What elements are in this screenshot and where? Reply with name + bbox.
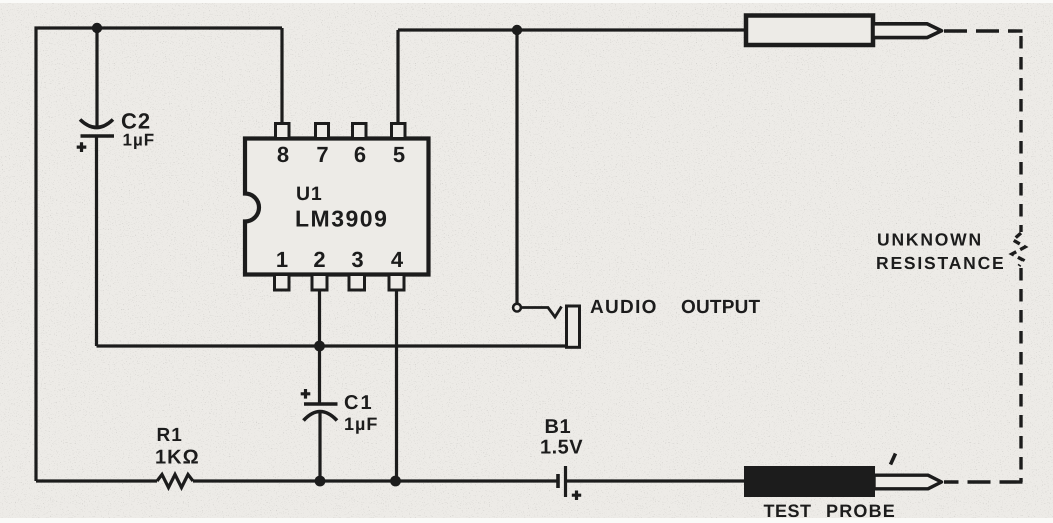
test probe tip xyxy=(874,475,942,489)
svg-text:RESISTANCE: RESISTANCE xyxy=(876,253,1006,273)
audio jack spring contact xyxy=(521,307,561,318)
C2 plus sign xyxy=(77,142,87,152)
banana plug (top) tip xyxy=(873,24,942,38)
pin 5 square xyxy=(392,124,406,139)
svg-text:U1: U1 xyxy=(296,183,323,205)
junction dot mid rail / pin2 xyxy=(314,341,325,352)
wire: C2 top lead xyxy=(95,28,98,127)
pin 4 square xyxy=(389,275,404,291)
svg-text:1: 1 xyxy=(276,247,288,272)
battery B1 negative plate xyxy=(556,474,560,488)
dashed lead: bottom right horizontal xyxy=(944,480,1023,483)
resistor R1 zigzag xyxy=(157,475,193,488)
svg-text:AUDIO: AUDIO xyxy=(590,297,658,318)
wire: pin 2 drop upper xyxy=(318,291,321,404)
wire: audio branch drop xyxy=(515,30,518,304)
pin 2 square xyxy=(312,275,327,291)
wire: C2 bottom lead down to mid rail xyxy=(95,136,98,346)
audio jack sleeve xyxy=(567,306,580,347)
junction dot bottom rail / C1 xyxy=(315,476,326,487)
svg-text:UNKNOWN: UNKNOWN xyxy=(877,230,983,250)
top white edge strip xyxy=(0,0,1053,3)
dashed lead: right vertical lower xyxy=(1019,268,1022,482)
dashed lead: top right horizontal xyxy=(944,29,1023,32)
svg-text:5: 5 xyxy=(393,142,405,167)
banana plug (top) body xyxy=(746,16,873,46)
svg-text:TEST: TEST xyxy=(764,501,812,521)
svg-text:3: 3 xyxy=(351,247,363,272)
capacitor C2 curved plate xyxy=(80,120,113,128)
pin 6 square xyxy=(353,124,367,139)
bottom white edge strip xyxy=(0,518,1053,523)
pin 1 square xyxy=(275,275,290,291)
dashed lead: right vertical upper xyxy=(1019,36,1022,232)
capacitor C1 straight plate xyxy=(304,402,338,406)
svg-text:1µF: 1µF xyxy=(123,131,156,150)
wire: pin 2 drop lower (below C1) xyxy=(318,412,321,481)
svg-text:1.5V: 1.5V xyxy=(540,437,583,459)
capacitor C2 straight plate xyxy=(81,134,115,138)
pin 8 square xyxy=(276,124,290,139)
capacitor C1 curved plate xyxy=(304,412,338,421)
svg-text:R1: R1 xyxy=(157,425,183,446)
wire: mid horizontal rail to jack xyxy=(97,344,581,347)
svg-text:PROBE: PROBE xyxy=(826,501,896,521)
junction dot bottom rail / pin4 xyxy=(390,476,401,487)
battery plus sign xyxy=(572,491,581,501)
wire: left vertical rail + top-left rail xyxy=(36,28,282,481)
svg-text:6: 6 xyxy=(354,142,366,167)
svg-text:OUTPUT: OUTPUT xyxy=(681,297,761,318)
svg-text:B1: B1 xyxy=(545,416,572,438)
pin 7 square xyxy=(316,124,329,139)
svg-text:LM3909: LM3909 xyxy=(295,206,388,232)
battery B1 positive plate xyxy=(564,466,567,497)
junction dot top-middle xyxy=(512,25,522,35)
wire: top-right rail xyxy=(398,28,746,31)
wire: pin 8 riser xyxy=(280,28,283,124)
wire: bottom rail middle segment xyxy=(193,479,557,482)
svg-text:C1: C1 xyxy=(344,392,374,414)
wire: bottom rail left segment xyxy=(36,479,157,482)
svg-text:4: 4 xyxy=(391,247,404,272)
wire: bottom rail right segment xyxy=(565,479,745,482)
pin 3 square xyxy=(349,275,365,291)
svg-text:1KΩ: 1KΩ xyxy=(155,447,200,469)
C1 plus sign xyxy=(301,389,311,399)
svg-text:7: 7 xyxy=(316,142,328,167)
stray tick mark above probe tip xyxy=(891,454,896,465)
junction dot top-left xyxy=(92,23,102,33)
audio jack tip contact circle xyxy=(513,304,521,312)
wire: pin 5 riser xyxy=(396,30,399,124)
svg-text:1µF: 1µF xyxy=(344,414,378,434)
svg-text:2: 2 xyxy=(313,247,325,272)
op-amp / IC U1 body with notch xyxy=(245,139,429,275)
test probe body (filled) xyxy=(745,467,874,496)
wire: pin 4 drop xyxy=(395,291,398,481)
unknown resistance squiggle xyxy=(1012,233,1025,266)
svg-text:8: 8 xyxy=(277,142,289,167)
